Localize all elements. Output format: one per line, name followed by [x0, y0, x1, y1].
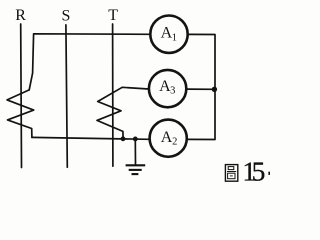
svg-text:T: T	[108, 7, 118, 24]
svg-text:S: S	[61, 8, 70, 25]
svg-text:3: 3	[170, 86, 175, 97]
svg-text:R: R	[15, 7, 26, 24]
svg-text:A: A	[161, 129, 173, 146]
svg-text:5: 5	[252, 156, 266, 187]
svg-text:2: 2	[172, 137, 177, 148]
svg-text:1: 1	[172, 32, 177, 43]
